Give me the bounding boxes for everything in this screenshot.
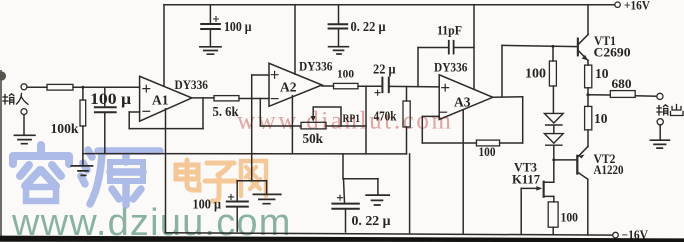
wire 22u to A3 + input xyxy=(390,85,439,88)
polarity + of 0.22u bottom xyxy=(338,195,343,200)
diode D2 xyxy=(544,134,563,146)
resistor 470k xyxy=(403,101,410,127)
resistor 5.6k xyxy=(214,96,239,101)
wire feedback vertical to bus xyxy=(365,86,367,154)
minus mark A1 xyxy=(143,110,150,112)
wire to VT2 base xyxy=(554,159,577,161)
watermark orange char 子 xyxy=(205,163,236,201)
svg-text:100: 100 xyxy=(561,210,579,225)
wire 0.22u jog stub from bus xyxy=(342,154,344,179)
capacitor 100u bottom stub xyxy=(236,181,238,201)
capacitor 0.22u top plates xyxy=(329,24,348,28)
svg-text:DY336: DY336 xyxy=(299,59,333,74)
wire rail left drop to A1 supply xyxy=(163,5,165,86)
label 输出 xyxy=(657,105,683,116)
op-amp A3 xyxy=(439,75,493,120)
wire +16V top rail xyxy=(164,4,615,6)
svg-text:100k: 100k xyxy=(51,121,79,136)
junction dot input node xyxy=(81,86,84,89)
wire VT3 gate to -16V rail xyxy=(520,188,522,234)
wire A2 negative supply drop to bus xyxy=(291,96,293,154)
wire A3 negative supply drop to -16V rail xyxy=(462,110,464,234)
wire A2 non-inverting input xyxy=(252,74,269,76)
terminal input upper xyxy=(21,84,27,90)
resistor 100 VT3 source xyxy=(548,202,558,227)
svg-text:+16V: +16V xyxy=(624,0,650,13)
svg-text:680: 680 xyxy=(612,77,632,91)
wire diode2 down to VT3 drain xyxy=(553,146,555,182)
svg-text:RP1: RP1 xyxy=(343,111,361,125)
scan edge left strip xyxy=(0,70,2,236)
ground right bottom xyxy=(366,195,389,205)
capacitor 0.22u bottom stub xyxy=(344,179,345,203)
polarity + of 100u bottom xyxy=(229,194,234,199)
svg-text:A3: A3 xyxy=(454,95,471,110)
terminal output lower xyxy=(657,119,663,125)
wire 5.6k to A2 inverting input xyxy=(239,98,269,100)
resistor 10 lower xyxy=(585,106,592,129)
RP1 wiper stem xyxy=(313,107,341,126)
svg-text:0. 22 μ: 0. 22 μ xyxy=(351,19,386,34)
wire input to series resistor xyxy=(27,86,47,88)
svg-text:0. 22 μ: 0. 22 μ xyxy=(352,214,391,229)
watermark blue char 容 xyxy=(13,145,69,201)
plus mark A2 xyxy=(271,71,278,78)
ground stub right bottom xyxy=(377,179,379,195)
junction dot emitter node xyxy=(586,93,589,96)
svg-text:100 μ: 100 μ xyxy=(193,197,222,212)
potentiometer RP1 body xyxy=(301,122,326,129)
wire ground bus xyxy=(83,153,407,155)
svg-text:A2: A2 xyxy=(280,80,297,95)
wire A2 + ground drop to 100u jog xyxy=(251,75,253,181)
wire VT3 resistor to rail xyxy=(552,227,554,235)
wire VT1 base run xyxy=(502,45,577,46)
capacitor 11pF plates xyxy=(449,41,454,54)
polarity + of 22u xyxy=(375,90,380,95)
wire bus drop to -16V rail xyxy=(409,154,411,233)
svg-text:A1220: A1220 xyxy=(594,163,624,177)
wire -16V bottom rail xyxy=(166,233,613,235)
transistor VT3 xyxy=(521,181,554,198)
svg-text:A1: A1 xyxy=(152,93,169,108)
wire 470k bottom to bus corner xyxy=(406,127,408,154)
wire A1 feedback to inverting input xyxy=(129,111,139,113)
capacitor 0.22u top stub xyxy=(338,5,340,46)
resistor 100 after A2 xyxy=(334,83,359,88)
wire output row xyxy=(588,94,610,96)
svg-text:K117: K117 xyxy=(512,173,540,187)
svg-text:470k: 470k xyxy=(374,109,397,124)
capacitor 100u decoupling plates xyxy=(201,24,220,29)
wire 680 to output terminal xyxy=(635,95,657,97)
wire 0.22u bottom to rail xyxy=(345,210,347,232)
wire input node to A1 + xyxy=(73,86,140,88)
resistor 680 xyxy=(610,91,635,98)
wire A2 output xyxy=(322,85,334,87)
scan blob left edge xyxy=(0,72,6,81)
wire bias resistor to diode 1 xyxy=(552,86,554,113)
wire A1 output xyxy=(192,97,214,99)
svg-text:100 μ: 100 μ xyxy=(224,19,252,34)
svg-text:DY336: DY336 xyxy=(434,60,468,75)
svg-text:5. 6k: 5. 6k xyxy=(213,104,239,119)
wire VT1 emitter to resistor xyxy=(587,61,589,66)
wire A3 output xyxy=(493,96,523,99)
wire A3 inverting input xyxy=(422,115,439,117)
svg-text:C2690: C2690 xyxy=(594,46,631,60)
wire input lower to ground xyxy=(23,115,25,135)
op-amp A1 xyxy=(140,76,192,121)
wire A3 feedback bottom left xyxy=(422,142,476,144)
wire A3 feedback bottom right xyxy=(500,142,523,144)
diode D1 xyxy=(544,113,563,125)
wire 11pF drop to signal xyxy=(417,48,419,87)
capacitor 0.22u bottom plates xyxy=(332,204,358,209)
capacitor 100u decoupling stub xyxy=(209,5,211,46)
wire A1 feedback bottom xyxy=(129,128,203,130)
minus mark A2 xyxy=(271,98,278,100)
wire 10 lower to VT2 emitter xyxy=(587,130,589,147)
wire between 10 resistors xyxy=(587,88,589,107)
capacitor 100u input stub xyxy=(104,87,106,106)
plus mark A3 xyxy=(442,84,449,91)
wire 11pF right lead xyxy=(455,47,475,49)
ground stub mid bottom xyxy=(266,181,268,194)
wire 100u bottom jog xyxy=(237,180,266,182)
ground below 100u decoupling xyxy=(200,47,221,54)
capacitor 22u plates xyxy=(382,78,388,93)
wire 0.22u bottom jog xyxy=(343,178,378,180)
label 输入 xyxy=(3,94,28,105)
wire A3 feedback down xyxy=(522,97,524,143)
wire A1 negative supply drop to -16V rail xyxy=(165,109,167,233)
junction dot bias tap xyxy=(552,45,555,48)
capacitor 100u input plates xyxy=(95,107,116,112)
wire A3 output up to VT1 base wire xyxy=(501,45,503,97)
polarity + of 100u decoupling xyxy=(214,17,219,22)
svg-text:100: 100 xyxy=(525,66,546,81)
bottom black band xyxy=(0,236,684,242)
wire to RP1 left xyxy=(260,125,301,127)
svg-text:22 μ: 22 μ xyxy=(373,62,396,77)
ground input xyxy=(14,135,35,143)
wire 470k top stub xyxy=(406,87,408,101)
ground output xyxy=(650,140,669,148)
resistor input series xyxy=(47,84,73,90)
wire VT1 collector drop xyxy=(587,5,589,35)
watermark orange char 网 xyxy=(241,161,266,196)
wire 100k bottom to bus and ground xyxy=(82,126,84,166)
svg-text:100 μ: 100 μ xyxy=(90,91,131,108)
wire 11pF left lead xyxy=(418,47,448,49)
ground below 0.22u top xyxy=(329,47,349,54)
resistor 100 A3 feedback xyxy=(476,140,499,146)
ground mid bottom xyxy=(253,194,280,203)
wire A2 inverting drop xyxy=(259,99,261,127)
svg-text:100: 100 xyxy=(337,69,354,81)
svg-text:100: 100 xyxy=(479,144,496,159)
resistor 100 bias xyxy=(549,61,556,86)
terminal input lower xyxy=(21,109,27,115)
transistor VT2 xyxy=(576,147,588,180)
terminal output upper xyxy=(657,93,663,99)
svg-text:50k: 50k xyxy=(303,131,324,146)
svg-text:DY336: DY336 xyxy=(175,77,209,92)
plus mark A1 xyxy=(143,85,150,92)
wire A1 feedback up xyxy=(128,112,130,129)
svg-text:10: 10 xyxy=(594,111,608,126)
ground under bus at 100k xyxy=(71,166,92,176)
watermark blue char 源 xyxy=(81,150,160,205)
svg-text:11pF: 11pF xyxy=(437,24,462,38)
junction dot VT2 base node xyxy=(552,158,555,161)
wire RP1 right to feedback node xyxy=(326,125,366,127)
wire 100 to 22u xyxy=(358,85,381,87)
resistor 10 upper xyxy=(585,65,592,88)
wire 100k top lead xyxy=(82,87,84,100)
wire bias chain top stub xyxy=(552,46,554,61)
svg-text:10: 10 xyxy=(595,66,609,81)
minus mark A3 xyxy=(440,111,446,113)
wire 100u bottom to rail xyxy=(236,208,238,232)
wire 100u input bottom to bus xyxy=(104,114,106,154)
wire A3 supply drop xyxy=(473,5,475,90)
wire VT2 collector to rail xyxy=(587,179,589,235)
terminal -16V xyxy=(613,232,619,238)
wire A2 supply drop xyxy=(294,5,296,75)
wire diode1 to diode2 xyxy=(553,126,555,134)
watermark orange char 电 xyxy=(176,160,199,190)
transistor VT1 xyxy=(577,35,588,61)
terminal +16V xyxy=(615,2,620,7)
op-amp A2 xyxy=(269,63,322,106)
resistor 100k xyxy=(80,100,86,126)
wire A3 feedback up to inverting xyxy=(421,116,423,143)
wire A1 feedback down xyxy=(202,98,204,129)
capacitor 100u bottom plates xyxy=(227,202,248,207)
wire output lower to ground xyxy=(659,125,661,140)
RP1 wiper arrowhead xyxy=(311,116,316,122)
wire VT3 source down xyxy=(553,196,555,202)
